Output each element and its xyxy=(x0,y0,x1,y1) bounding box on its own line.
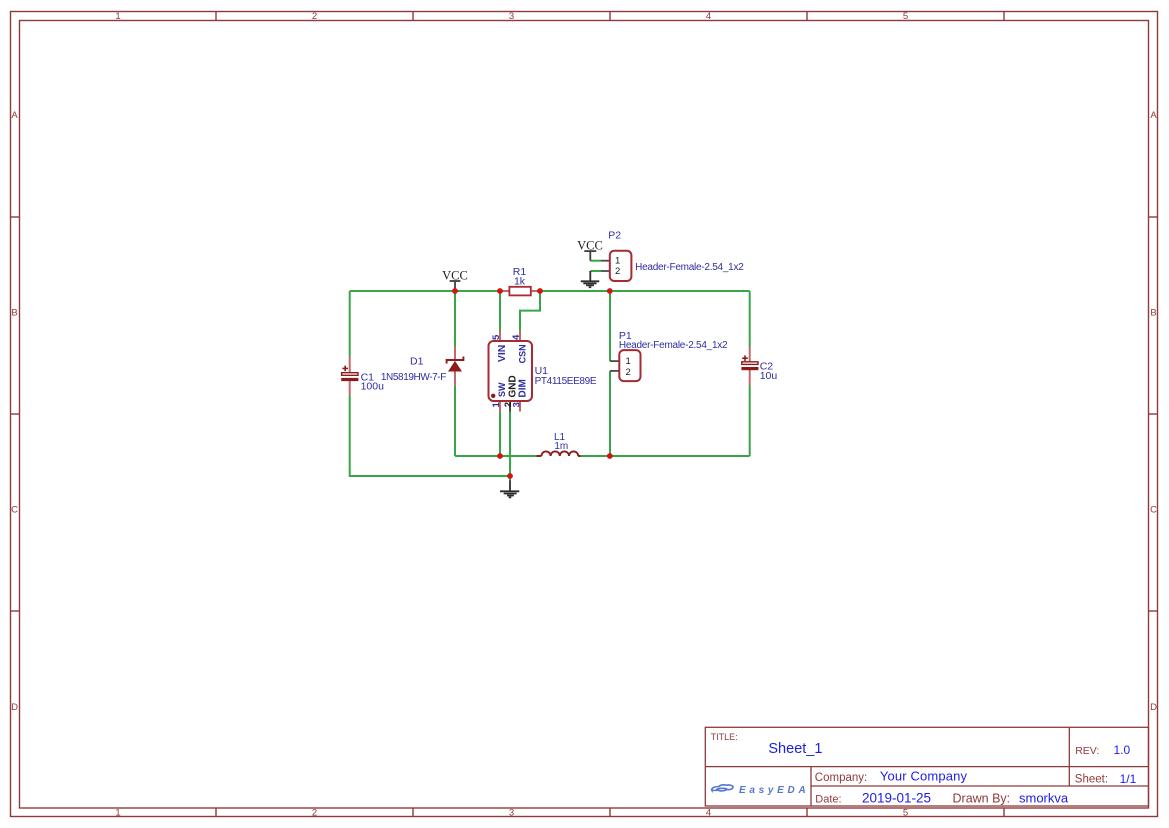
wire: P2 pin1 to VCC xyxy=(590,260,601,262)
svg-text:Header-Female-2.54_1x2: Header-Female-2.54_1x2 xyxy=(635,262,744,273)
svg-text:1m: 1m xyxy=(554,441,568,452)
wire: right branch C2 top xyxy=(749,291,751,347)
wire: left branch down to C1 top xyxy=(349,291,351,356)
wire: VIN drop from top net xyxy=(499,291,501,331)
svg-text:C: C xyxy=(1150,505,1157,516)
svg-text:U1: U1 xyxy=(535,365,549,377)
svg-text:100u: 100u xyxy=(361,380,385,392)
svg-text:D1: D1 xyxy=(410,356,424,368)
svg-text:1: 1 xyxy=(491,401,502,407)
svg-text:2: 2 xyxy=(615,266,620,277)
svg-text:EasyEDA: EasyEDA xyxy=(739,785,809,796)
svg-text:4: 4 xyxy=(511,334,522,340)
diode D1 (1N5819HW-7-F) xyxy=(454,347,456,360)
svg-text:smorkva: smorkva xyxy=(1019,790,1069,805)
wire: bottom net right segment xyxy=(580,455,750,457)
junction: R1 right / CSN xyxy=(537,288,543,294)
svg-text:A: A xyxy=(1150,110,1157,121)
svg-text:VCC: VCC xyxy=(442,268,468,282)
svg-text:1.0: 1.0 xyxy=(1114,743,1131,757)
svg-text:Your Company: Your Company xyxy=(880,769,968,784)
svg-text:1: 1 xyxy=(115,11,120,22)
wire: top net VCC horizontal xyxy=(350,290,750,292)
C1 plus sign xyxy=(342,366,348,372)
junction: SW on bottom net xyxy=(497,453,503,459)
junction: ground node xyxy=(507,473,513,479)
svg-text:3: 3 xyxy=(512,402,523,407)
svg-text:Sheet_1: Sheet_1 xyxy=(768,741,822,757)
junction: R1 left / VIN xyxy=(497,288,503,294)
svg-text:VCC: VCC xyxy=(577,238,603,252)
svg-text:1k: 1k xyxy=(514,276,526,288)
EasyEDA logo xyxy=(712,785,810,796)
U1 pin1 dot marker xyxy=(491,394,495,398)
ground symbol (main, below U1) xyxy=(500,481,519,498)
svg-text:3: 3 xyxy=(509,808,514,819)
svg-text:2: 2 xyxy=(626,367,631,378)
svg-text:REV:: REV: xyxy=(1075,745,1099,757)
svg-text:1N5819HW-7-F: 1N5819HW-7-F xyxy=(381,372,446,383)
svg-text:4: 4 xyxy=(706,11,711,22)
wire: P2 pin2 to ground xyxy=(590,270,601,272)
C2 plus sign xyxy=(742,355,748,361)
junction: P2/P1 branch on top net xyxy=(607,288,613,294)
svg-text:TITLE:: TITLE: xyxy=(711,732,738,742)
wire: D1 top drop xyxy=(454,291,456,347)
svg-text:Drawn By:: Drawn By: xyxy=(953,791,1011,805)
svg-text:1/1: 1/1 xyxy=(1120,772,1137,786)
svg-text:Sheet:: Sheet: xyxy=(1075,773,1108,785)
wire: P1 pin2 drop to bottom net xyxy=(609,371,611,456)
ground symbol (P2 pin2) xyxy=(581,271,600,287)
svg-text:B: B xyxy=(11,308,17,319)
svg-text:B: B xyxy=(1150,308,1156,319)
svg-text:VIN: VIN xyxy=(496,345,508,363)
resistor R1 xyxy=(500,290,509,292)
wire: P1 branch from top net to pin 1 xyxy=(609,291,611,361)
wire: C1 bottom down and right to ground node xyxy=(350,396,510,477)
wire: GND pin drop to ground node xyxy=(509,412,511,482)
U1 pin stubs top: pin 5, pin 4 xyxy=(499,331,501,341)
svg-text:4: 4 xyxy=(706,808,711,819)
U1 pin stubs bottom: pin 1, pin 2 (gray), pin 3 xyxy=(499,401,501,412)
title block xyxy=(705,727,1148,806)
svg-text:1: 1 xyxy=(115,808,120,819)
junction: P1 pin2 on bottom net xyxy=(607,453,613,459)
inductor L1 xyxy=(537,455,542,457)
svg-text:5: 5 xyxy=(903,11,908,22)
capacitor C1 (polarized 100u) xyxy=(349,356,351,373)
svg-text:PT4115EE89E: PT4115EE89E xyxy=(535,376,597,387)
svg-text:C: C xyxy=(11,505,18,516)
junction: VCC / D1 on top net xyxy=(452,288,458,294)
svg-text:5: 5 xyxy=(491,334,502,340)
header P1 xyxy=(610,360,619,362)
svg-text:Header-Female-2.54_1x2: Header-Female-2.54_1x2 xyxy=(619,340,728,351)
svg-text:D: D xyxy=(11,702,18,713)
svg-text:P2: P2 xyxy=(608,230,621,242)
svg-text:2: 2 xyxy=(312,11,317,22)
svg-text:A: A xyxy=(11,110,18,121)
wire: CSN jog from R1 right xyxy=(520,291,540,331)
header P2 xyxy=(601,260,610,262)
svg-text:CSN: CSN xyxy=(517,344,527,363)
svg-text:D: D xyxy=(1150,702,1157,713)
power symbol VCC (main net) xyxy=(450,281,461,291)
svg-text:5: 5 xyxy=(903,808,908,819)
U1 body xyxy=(489,341,533,401)
wire: D1 bottom to bottom net xyxy=(454,386,456,456)
wire: SW pin drop to bottom net xyxy=(499,412,501,457)
svg-text:1: 1 xyxy=(626,356,631,367)
svg-text:2: 2 xyxy=(312,808,317,819)
svg-text:Date:: Date: xyxy=(815,793,841,805)
svg-text:SW: SW xyxy=(497,382,507,397)
svg-text:Company:: Company: xyxy=(815,772,867,784)
svg-text:2019-01-25: 2019-01-25 xyxy=(862,790,931,805)
svg-text:10u: 10u xyxy=(760,370,778,382)
capacitor C2 (polarized 10u) xyxy=(749,347,751,362)
svg-text:3: 3 xyxy=(509,11,514,22)
svg-text:DIM: DIM xyxy=(517,379,528,397)
wire: bottom net left segment xyxy=(455,455,537,457)
power symbol VCC (P2) xyxy=(584,251,596,261)
wire: C2 bottom to bottom net xyxy=(749,386,751,457)
